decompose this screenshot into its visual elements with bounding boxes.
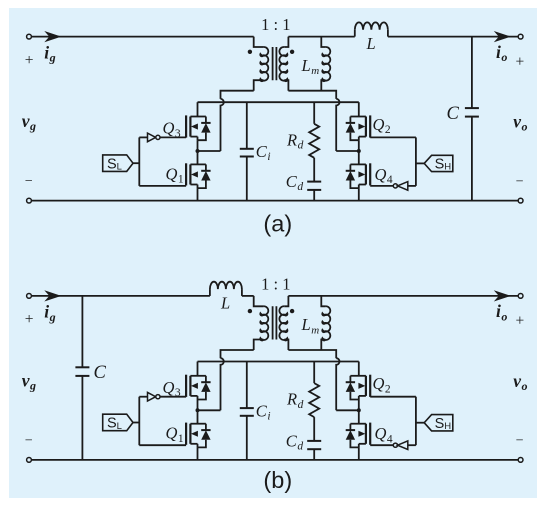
wire secondary top to output (b) bbox=[288, 295, 520, 297]
terminal input bottom (a) bbox=[27, 198, 32, 203]
wire inverter to Q3 gate (a) bbox=[160, 136, 186, 138]
transformer T primary lead (b) bbox=[254, 296, 264, 306]
node right midpoint junction (a) bbox=[357, 149, 361, 153]
wire top bus (b) bbox=[198, 361, 359, 363]
svg-text:+: + bbox=[516, 313, 525, 330]
wire to left midpoint (a) bbox=[198, 150, 221, 152]
wire Q1 source (a) bbox=[197, 188, 199, 201]
wire secondary-bottom to node (b) bbox=[288, 350, 336, 358]
wire gate-drive vertical right (b) bbox=[415, 397, 417, 446]
resistor Rd (b) bbox=[309, 383, 319, 417]
wire top-left rail (a) bbox=[29, 36, 254, 38]
svg-text:−: − bbox=[516, 434, 524, 449]
transistor Q1 (a) bbox=[186, 163, 211, 188]
wire SL to split (b) bbox=[133, 422, 139, 424]
transformer T secondary bottom lead (b) bbox=[284, 340, 288, 351]
wire L to transformer (b) bbox=[242, 295, 254, 297]
inductor L left stub (a) bbox=[354, 30, 356, 37]
wire to inverter (a) bbox=[139, 136, 147, 138]
node left midpoint junction (b) bbox=[196, 408, 200, 412]
inductor L right stub (a) bbox=[387, 30, 389, 37]
wire Q2 source (b) bbox=[358, 400, 360, 411]
inverter bubble right (b) bbox=[393, 443, 397, 447]
wire Q3 source (b) bbox=[197, 400, 199, 411]
inductor L left stub (b) bbox=[209, 289, 211, 296]
wire Q3 drain (a) bbox=[197, 102, 199, 116]
node right midpoint junction (b) bbox=[357, 408, 361, 412]
svg-text:+: + bbox=[25, 311, 34, 328]
wire Q3 source (a) bbox=[197, 140, 199, 151]
transistor Q1 (b) bbox=[186, 423, 211, 448]
gate tag SL (a) bbox=[103, 155, 133, 172]
wire inverter to vertical right (a) bbox=[408, 185, 416, 187]
inductor Lm lead top (b) bbox=[321, 296, 325, 306]
wire secondary-bottom to node (a) bbox=[288, 91, 336, 99]
wire gate-drive vertical right (a) bbox=[415, 137, 417, 186]
svg-text:C: C bbox=[447, 104, 460, 124]
transformer T secondary lead (b) bbox=[284, 296, 288, 306]
inductor Lm winding (a) bbox=[322, 47, 330, 81]
svg-text:−: − bbox=[25, 433, 33, 448]
capacitor Ci (b) bbox=[246, 362, 248, 409]
wire Q4 gate to inverter (a) bbox=[370, 185, 393, 187]
wire Q1 source (b) bbox=[197, 447, 199, 460]
terminal output top (b) bbox=[518, 294, 523, 299]
terminal input top (a) bbox=[27, 34, 32, 39]
transformer T secondary lead (a) bbox=[284, 37, 288, 47]
wire crossing hop right (b) bbox=[336, 358, 339, 410]
wire bottom rail (b) bbox=[29, 459, 521, 461]
transistor Q2 (b) bbox=[346, 375, 371, 400]
current arrow io (b) bbox=[494, 290, 511, 301]
wire SH stub (b) bbox=[416, 422, 424, 424]
gate tag SH (a) bbox=[424, 155, 453, 171]
svg-text:1 : 1: 1 : 1 bbox=[261, 275, 290, 294]
inductor Lm lead bottom (a) bbox=[321, 80, 325, 91]
transformer T primary bottom lead (a) bbox=[254, 80, 264, 91]
transistor Q4 (b) bbox=[346, 423, 371, 448]
svg-text:L: L bbox=[220, 294, 230, 313]
transformer T primary lead (a) bbox=[254, 37, 264, 47]
transformer T primary polarity dot (a) bbox=[248, 50, 252, 54]
gate tag SH (b) bbox=[424, 415, 453, 431]
capacitor C (b) bbox=[81, 296, 83, 367]
inductor Lm lead bottom (b) bbox=[321, 340, 325, 351]
transistor Q3 (a) bbox=[186, 115, 211, 140]
wire Q4 drain (a) bbox=[358, 151, 360, 164]
wire to left midpoint (b) bbox=[198, 409, 221, 411]
inverter (NOT gate) right (b) bbox=[398, 441, 408, 450]
svg-text:−: − bbox=[25, 174, 33, 189]
wire crossing hop left (b) bbox=[221, 358, 224, 410]
transformer T secondary bottom lead (a) bbox=[284, 80, 288, 91]
transistor Q2 (a) bbox=[346, 115, 371, 140]
current arrow io (a) bbox=[494, 31, 511, 42]
wire Q1 drain (a) bbox=[197, 151, 199, 164]
transformer T secondary winding (a) bbox=[279, 47, 287, 81]
wire to right midpoint (a) bbox=[336, 150, 359, 152]
transformer T primary winding (a) bbox=[260, 47, 268, 81]
wire L to output terminal (a) bbox=[388, 36, 521, 38]
terminal input top (b) bbox=[27, 294, 32, 299]
inverter (NOT gate) left (b) bbox=[148, 392, 156, 401]
transformer T primary winding (b) bbox=[260, 306, 268, 340]
wire primary-bottom to node (b) bbox=[221, 350, 254, 358]
inverter (NOT gate) left (a) bbox=[148, 133, 156, 142]
inverter (NOT gate) right (a) bbox=[398, 182, 408, 191]
terminal output bottom (a) bbox=[518, 198, 523, 203]
wire primary-bottom to node (a) bbox=[221, 91, 254, 99]
transistor Q3 (b) bbox=[186, 375, 211, 400]
svg-text:C: C bbox=[94, 363, 107, 383]
wire Q3 drain (b) bbox=[197, 362, 199, 376]
svg-text:(a): (a) bbox=[263, 211, 292, 237]
inverter bubble left (b) bbox=[156, 395, 160, 399]
inverter bubble right (a) bbox=[393, 184, 397, 188]
svg-text:−: − bbox=[516, 174, 524, 189]
wire top bus (a) bbox=[198, 101, 359, 103]
wire Q4 source (a) bbox=[358, 188, 360, 201]
svg-text:(b): (b) bbox=[263, 467, 292, 493]
gate tag SL (b) bbox=[103, 414, 133, 431]
inverter bubble left (a) bbox=[156, 135, 160, 139]
wire to inverter (b) bbox=[139, 396, 147, 398]
resistor Rd (a) bbox=[309, 124, 319, 158]
wire Q2 drain (b) bbox=[358, 362, 360, 376]
transformer T secondary polarity dot (a) bbox=[290, 50, 294, 54]
wire SL to split (a) bbox=[133, 162, 139, 164]
wire Q2 drain (a) bbox=[358, 102, 360, 116]
inductor L coil (b) bbox=[210, 282, 242, 289]
wire to right midpoint (b) bbox=[336, 409, 359, 411]
transformer T primary bottom lead (b) bbox=[254, 340, 264, 351]
svg-text:+: + bbox=[25, 52, 34, 69]
wire Q4 source (b) bbox=[358, 447, 360, 460]
wire gate-drive vertical left (b) bbox=[138, 397, 140, 446]
inductor Lm winding (b) bbox=[322, 306, 330, 340]
wire Q4 drain (b) bbox=[358, 410, 360, 423]
terminal output bottom (b) bbox=[518, 458, 523, 463]
terminal output top (a) bbox=[518, 34, 523, 39]
transformer T core (b) bbox=[273, 306, 277, 339]
wire Rd top lead (b) bbox=[313, 362, 315, 384]
wire Q2 source (a) bbox=[358, 140, 360, 151]
wire bottom rail (a) bbox=[29, 200, 521, 202]
wire Q2 gate to vertical (b) bbox=[370, 396, 416, 398]
capacitor Cd (a) bbox=[313, 158, 315, 182]
current arrow ig (a) bbox=[44, 31, 61, 42]
transistor Q4 (a) bbox=[346, 163, 371, 188]
wire gate-drive vertical left (a) bbox=[138, 137, 140, 186]
wire inverter to vertical right (b) bbox=[408, 444, 416, 446]
wire SL to Q1 gate (a) bbox=[139, 185, 186, 187]
wire crossing hop left (a) bbox=[221, 99, 224, 151]
wire Q4 gate to inverter (b) bbox=[370, 444, 393, 446]
svg-text:+: + bbox=[516, 53, 525, 70]
transformer T core (a) bbox=[273, 47, 277, 80]
capacitor C (a) bbox=[471, 37, 473, 109]
capacitor Ci (a) bbox=[246, 102, 248, 149]
current arrow ig (b) bbox=[44, 290, 61, 301]
svg-text:L: L bbox=[366, 34, 376, 53]
wire crossing hop right (a) bbox=[336, 99, 339, 151]
wire inverter to Q3 gate (b) bbox=[160, 396, 186, 398]
transformer T secondary winding (b) bbox=[279, 306, 287, 340]
wire Q1 drain (b) bbox=[197, 410, 199, 423]
wire Rd top lead (a) bbox=[313, 102, 315, 124]
node left midpoint junction (a) bbox=[196, 149, 200, 153]
wire Q2 gate to vertical (a) bbox=[370, 136, 416, 138]
transformer T primary polarity dot (b) bbox=[248, 309, 252, 313]
transformer T secondary polarity dot (b) bbox=[290, 309, 294, 313]
wire SL to Q1 gate (b) bbox=[139, 444, 186, 446]
inductor Lm lead top (a) bbox=[321, 37, 325, 47]
capacitor Cd (b) bbox=[313, 417, 315, 441]
inductor L right stub (b) bbox=[241, 289, 243, 296]
svg-text:1 : 1: 1 : 1 bbox=[261, 15, 290, 34]
wire top-left rail (b) bbox=[29, 295, 210, 297]
terminal input bottom (b) bbox=[27, 458, 32, 463]
wire secondary top to L (a) bbox=[288, 36, 354, 38]
inductor L coil (a) bbox=[355, 22, 388, 29]
wire SH stub (a) bbox=[416, 162, 424, 164]
